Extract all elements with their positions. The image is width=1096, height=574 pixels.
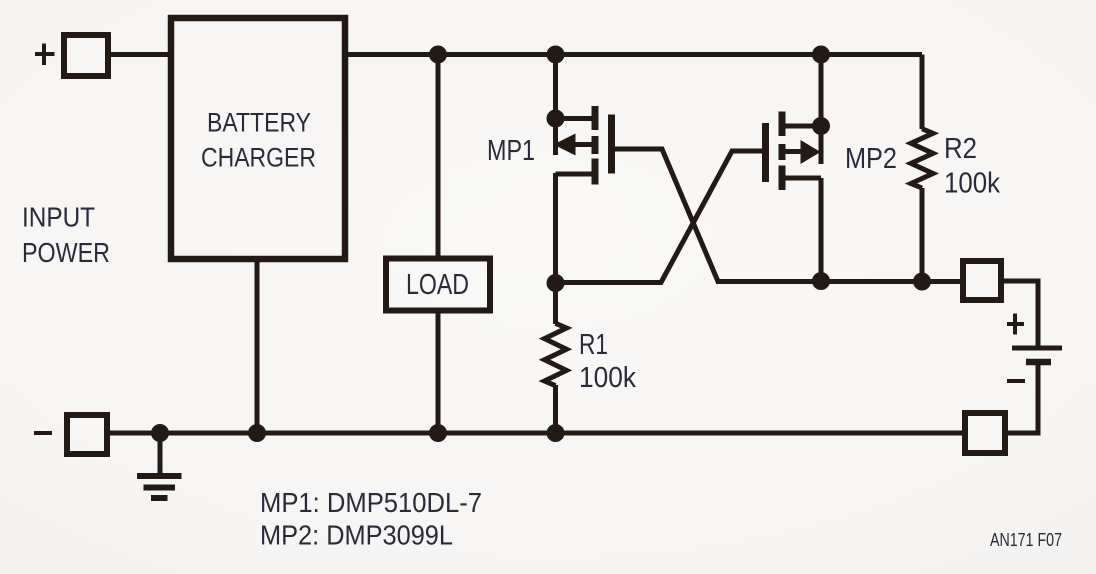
wire MP1 gate to MP2 drain node (cross coupling): [615, 149, 964, 282]
svg-text:MP1: MP1: [487, 135, 535, 167]
svg-text:AN171 F07: AN171 F07: [990, 530, 1062, 550]
svg-text:R2: R2: [944, 133, 977, 165]
wire LOAD top stem: [436, 55, 441, 259]
svg-text:MP1: DMP510DL-7: MP1: DMP510DL-7: [260, 487, 482, 518]
wire output pad to battery top: [1001, 281, 1038, 346]
wire LOAD bottom stem: [436, 311, 441, 433]
wire battery bottom stem: [1008, 365, 1038, 433]
MP1 body arrow: [554, 134, 576, 156]
battery short plate: [1026, 359, 1051, 366]
MP1 body stub: [574, 142, 592, 147]
MP2 source stub: [785, 124, 821, 129]
MP1 channel bar segments: [592, 106, 599, 185]
wire top rail corner down to R2: [920, 55, 925, 130]
svg-text:CHARGER: CHARGER: [201, 143, 316, 173]
svg-text:R1: R1: [579, 329, 608, 361]
svg-text:100k: 100k: [944, 168, 1000, 200]
resistor R1 zigzag: [545, 323, 567, 385]
junction dot MP2 top: [812, 46, 830, 64]
wire R2 bottom: [920, 188, 925, 282]
MP1 source stub: [556, 116, 593, 121]
junction dot R2 bottom node: [913, 273, 931, 291]
MP2 source junction dot: [812, 117, 830, 135]
svg-text:LOAD: LOAD: [406, 269, 469, 301]
junction dot MP1 top: [547, 46, 565, 64]
wire MP2 gate to MP1 drain node (cross coupling): [556, 151, 763, 283]
junction dot R1 bottom: [547, 424, 565, 442]
MP2 body stub: [785, 149, 802, 154]
ground symbol: [137, 433, 182, 498]
MP1 source vertical wire: [553, 55, 558, 156]
svg-text:MP2: DMP3099L: MP2: DMP3099L: [260, 520, 453, 551]
junction dot load bottom: [429, 424, 447, 442]
bottom rail wire: [110, 431, 962, 436]
battery long plate: [1012, 346, 1062, 351]
wire R1 top: [553, 283, 558, 324]
LOAD box: [386, 259, 490, 311]
svg-text:BATTERY: BATTERY: [207, 108, 311, 138]
MP2 source vertical wire: [819, 55, 824, 165]
svg-text:MP2: MP2: [845, 143, 897, 175]
wire input pad to charger: [108, 52, 172, 57]
junction dot MP1 drain node: [547, 274, 565, 292]
wire R1 bottom: [553, 385, 558, 433]
MP1 drain vertical wire: [553, 173, 558, 283]
transistor MP1 (p-channel MOSFET): [547, 55, 612, 284]
junction dot load top: [429, 46, 447, 64]
minus input terminal pad: [67, 415, 107, 454]
junction dot ground: [151, 424, 169, 442]
plus sign (input): [35, 44, 55, 66]
minus sign (battery): [1007, 379, 1025, 383]
MP2 gate bar: [762, 123, 769, 182]
top rail wire: [345, 52, 922, 57]
plus sign (battery): [1007, 314, 1024, 335]
MP2 body arrow: [801, 140, 821, 164]
transistor MP2 (p-channel MOSFET): [766, 55, 831, 282]
plus input terminal pad: [64, 35, 108, 76]
junction dot charger ground: [248, 424, 266, 442]
MP1 drain stub: [556, 172, 593, 177]
plus output terminal pad: [963, 261, 1001, 300]
minus sign (input): [34, 431, 52, 435]
svg-text:POWER: POWER: [22, 237, 110, 268]
svg-text:100k: 100k: [579, 362, 636, 394]
MP2 drain vertical wire: [819, 178, 824, 281]
svg-text:INPUT: INPUT: [22, 202, 95, 233]
MP1 source junction dot: [547, 110, 565, 128]
MP2 drain stub: [785, 176, 821, 181]
battery charger box: [171, 18, 345, 259]
MP2 channel bar segments: [779, 112, 786, 191]
minus output terminal pad: [965, 413, 1005, 453]
MP1 gate bar: [608, 115, 615, 174]
resistor R2 zigzag: [911, 129, 933, 188]
wire charger bottom stem: [255, 259, 260, 433]
junction dot MP2 drain node: [812, 272, 830, 290]
